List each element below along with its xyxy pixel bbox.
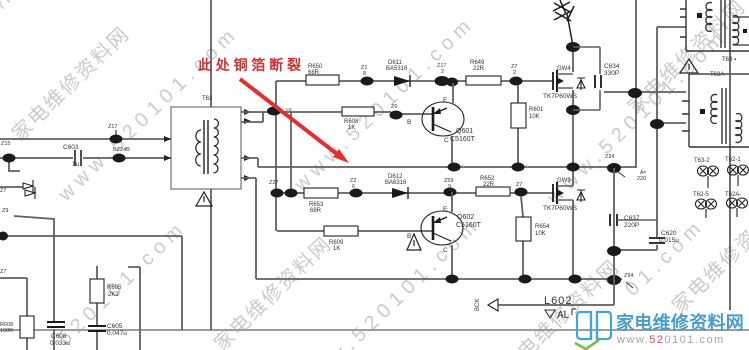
T63A polarity dot xyxy=(700,109,705,114)
resistor R608 100R xyxy=(0,316,34,338)
wire node Z9 down left column xyxy=(14,216,54,350)
svg-text:L602: L602 xyxy=(544,295,572,307)
svg-text:C: C xyxy=(444,137,449,144)
svg-text:T63: T63 xyxy=(202,96,213,102)
svg-text:2: 2 xyxy=(441,69,444,75)
MOSFET GW4 TK7P60WS xyxy=(543,66,585,100)
wire y27 to winding xyxy=(657,26,686,28)
svg-text:330P: 330P xyxy=(604,70,619,77)
svg-text:T63A: T63A xyxy=(710,72,724,78)
svg-text:AL: AL xyxy=(557,310,570,321)
node rail C: Q602 C xyxy=(446,275,459,284)
wire transformer bottom vertical xyxy=(210,189,212,330)
svg-text:C5160T: C5160T xyxy=(450,136,476,143)
wire x636 vertical xyxy=(635,0,637,168)
svg-text:0.033u: 0.033u xyxy=(50,340,70,347)
svg-text:9: 9 xyxy=(448,184,451,190)
T63 winding 1 tap line xyxy=(680,0,749,51)
connector T62A xyxy=(725,192,748,217)
wire to surge arrester Z7 xyxy=(0,186,23,188)
wire left rail 1 xyxy=(0,138,171,140)
svg-text:C603: C603 xyxy=(63,144,79,151)
T63A right coil xyxy=(736,114,742,143)
wire x614 vertical xyxy=(613,168,615,305)
node Z6 xyxy=(390,104,403,120)
node Z26 xyxy=(350,178,363,198)
svg-text:Z15: Z15 xyxy=(1,141,10,147)
T63A tap line xyxy=(682,74,749,147)
svg-text:R654: R654 xyxy=(535,224,550,230)
svg-text:T62-1: T62-1 xyxy=(725,157,741,163)
diode D611 BA5316 xyxy=(386,60,410,87)
svg-text:GW4: GW4 xyxy=(557,66,571,72)
resistor R654 10K xyxy=(516,196,550,279)
node Z2 xyxy=(510,64,523,86)
svg-text:家电维修资料网: 家电维修资料网 xyxy=(616,312,744,333)
wire rail D gate drive 2 xyxy=(277,192,553,194)
svg-text:C620: C620 xyxy=(661,230,677,237)
node rail C: GW3 source xyxy=(569,275,582,284)
T63 primary coil xyxy=(196,130,201,166)
fuse label 220 xyxy=(637,170,646,182)
T63 secondary coil xyxy=(213,119,218,173)
arrow BCK xyxy=(475,299,498,311)
node Z27 pair xyxy=(269,180,298,198)
capacitor C608 0.033u xyxy=(47,322,70,347)
svg-text:此处铜箔断裂: 此处铜箔断裂 xyxy=(198,57,305,73)
wire GW4 drain/source vertical xyxy=(572,46,574,167)
wire rail C xyxy=(256,278,622,280)
wire T63 pin y158 to rail B xyxy=(241,158,258,167)
T63 core xyxy=(204,120,208,174)
svg-text:Z17: Z17 xyxy=(108,124,117,130)
svg-text:B: B xyxy=(407,119,411,126)
svg-text:R605: R605 xyxy=(107,285,122,291)
capacitor C605 0.047u xyxy=(88,323,127,337)
wire rail B xyxy=(258,166,636,168)
svg-text:家电维修资料网: 家电维修资料网 xyxy=(0,0,26,99)
node at 573,110 xyxy=(566,105,580,115)
transistor Q601 C5160T xyxy=(407,83,476,167)
resistor R605 2K2 xyxy=(90,279,122,303)
svg-text:BCK: BCK xyxy=(475,299,481,311)
svg-text:www.520101.com: www.520101.com xyxy=(616,334,725,346)
node Z17 xyxy=(435,63,459,87)
node 635,93 xyxy=(628,88,642,98)
wire y75 xyxy=(689,73,749,75)
wire y91 to T63A xyxy=(604,91,686,93)
logo book icon xyxy=(577,312,611,339)
svg-text:220: 220 xyxy=(637,176,646,182)
svg-text:Z24: Z24 xyxy=(605,154,614,160)
wire y123 to T63A xyxy=(657,122,686,124)
node Z24 rail B end xyxy=(605,154,625,177)
resistor R652 22R xyxy=(476,176,510,196)
resistor R608 1K xyxy=(342,107,374,131)
connector T62-1 xyxy=(725,157,749,186)
transistor Q602 C5160T xyxy=(407,192,482,279)
svg-text:C605: C605 xyxy=(107,323,123,330)
svg-text:C634: C634 xyxy=(604,63,620,70)
node at 573,47 xyxy=(566,42,580,52)
transformer T63 xyxy=(164,96,251,189)
warning triangle right xyxy=(680,59,698,73)
capacitor C603 xyxy=(63,144,81,168)
T63 top core xyxy=(721,0,725,48)
node rail C: R654 bottom xyxy=(519,275,532,284)
node 614,251 xyxy=(607,246,621,256)
svg-text:22R: 22R xyxy=(473,66,485,72)
T63 winding 1 coil xyxy=(706,2,712,31)
svg-text:Z7: Z7 xyxy=(0,188,6,194)
svg-text:T62A-: T62A- xyxy=(725,192,741,198)
svg-text:1K: 1K xyxy=(333,246,340,252)
svg-text:家电维修资料网: 家电维修资料网 xyxy=(209,232,336,350)
MOSFET GW3 TK7P60WS xyxy=(543,178,585,212)
logo green swoosh xyxy=(575,340,599,349)
resistor R649 22R xyxy=(466,60,501,85)
ground triangle center xyxy=(407,234,421,250)
inductor L602 xyxy=(544,295,576,321)
svg-text:2K2: 2K2 xyxy=(108,292,119,298)
connector T63-2 xyxy=(694,158,719,188)
wire T63 pin y178 to rail C xyxy=(241,178,256,279)
svg-text:Z7: Z7 xyxy=(516,182,522,188)
svg-text:6: 6 xyxy=(352,184,355,190)
wire transformer top vertical xyxy=(210,0,212,107)
svg-text:T62-5: T62-5 xyxy=(693,192,709,198)
wire corner x140 xyxy=(128,267,140,350)
resistor R650 68R xyxy=(306,64,339,85)
T63A core xyxy=(722,88,726,144)
svg-text:100R: 100R xyxy=(0,328,13,334)
polarity dot xyxy=(697,13,702,18)
T63A coil xyxy=(711,94,717,123)
capacitor C637 220P xyxy=(610,214,657,229)
wire T63 pin y122 stub xyxy=(241,112,263,122)
node Z58 xyxy=(515,182,528,197)
surge arrester Z7 xyxy=(0,180,35,199)
wire GW3 drain/source vertical xyxy=(572,168,574,279)
svg-text:T63-2: T63-2 xyxy=(694,158,710,164)
svg-text:Q602: Q602 xyxy=(457,214,474,221)
svg-text:BA5316: BA5316 xyxy=(386,66,408,72)
resistor R609 1K xyxy=(277,226,433,252)
spark gap top xyxy=(553,0,574,46)
svg-text:68R: 68R xyxy=(310,208,322,214)
svg-text:GW3: GW3 xyxy=(557,178,571,184)
svg-text:Z94: Z94 xyxy=(624,273,633,279)
wire y305 L602 xyxy=(498,304,614,306)
node BZ24B xyxy=(113,147,131,163)
svg-text:1u: 1u xyxy=(72,161,80,168)
ground triangle under T63 xyxy=(196,192,212,206)
polarity dot right xyxy=(743,29,747,33)
svg-text:8: 8 xyxy=(363,71,366,77)
node rail B: R601 bottom xyxy=(512,163,525,172)
svg-text:c≡: c≡ xyxy=(286,107,292,113)
node 657,124 xyxy=(650,119,664,129)
wire hook under node Z15 xyxy=(9,162,20,171)
node Z18 xyxy=(361,65,374,86)
node Z94 xyxy=(624,273,633,288)
wire Z7 row to resistor R608 xyxy=(0,278,27,350)
T63 top right coil xyxy=(733,16,749,45)
svg-text:10K: 10K xyxy=(529,114,540,120)
wire vertical x291 xyxy=(290,112,292,193)
svg-text:Z7: Z7 xyxy=(0,269,6,275)
node dot left edge y236 xyxy=(0,232,8,241)
wire column R605/C605 xyxy=(96,266,98,350)
svg-text:Z27: Z27 xyxy=(269,180,278,186)
wire right border vertical xyxy=(729,0,731,310)
svg-text:22R: 22R xyxy=(483,182,495,188)
svg-text:BA6316: BA6316 xyxy=(385,180,407,186)
svg-text:Z6: Z6 xyxy=(391,104,397,110)
T63 left pin arrows xyxy=(164,136,171,161)
node Z59 xyxy=(444,178,457,197)
T63 right pin arrows xyxy=(244,109,251,181)
svg-text:1K: 1K xyxy=(348,125,355,131)
svg-text:B: B xyxy=(407,233,411,240)
svg-text:68R: 68R xyxy=(308,70,320,76)
wire left rail 2 xyxy=(0,157,171,159)
wire y250 C620 return xyxy=(614,249,657,251)
wire row2 base drive 1 xyxy=(241,112,433,114)
svg-text:0.015u: 0.015u xyxy=(659,237,679,244)
svg-text:E: E xyxy=(443,206,448,213)
red arrow xyxy=(240,79,349,163)
svg-text:C637: C637 xyxy=(624,215,640,222)
svg-text:E: E xyxy=(443,97,448,104)
wire rail A gate drive 1 xyxy=(276,80,553,82)
node Z17a xyxy=(108,124,123,144)
svg-text:220P: 220P xyxy=(624,222,639,229)
node rail B: Q601 C xyxy=(448,163,461,172)
svg-text:0.047u: 0.047u xyxy=(107,330,127,337)
node Z15 xyxy=(1,141,16,163)
svg-text:T63 ▪: T63 ▪ xyxy=(722,57,736,63)
node rail B: GW4 source xyxy=(567,163,580,172)
svg-text:BZ24B: BZ24B xyxy=(113,147,130,153)
resistor R653 68R xyxy=(304,188,338,214)
node on row2 xyxy=(267,107,281,116)
diode D612 BA6316 xyxy=(385,174,408,199)
wire x657 vertical xyxy=(656,27,658,250)
node rail C: x614 xyxy=(607,275,621,285)
svg-text:www.520101.com: www.520101.com xyxy=(53,22,243,207)
svg-text:2: 2 xyxy=(513,70,516,76)
svg-text:Z9: Z9 xyxy=(2,208,8,214)
svg-text:10K: 10K xyxy=(535,231,546,237)
wire vertical x276 xyxy=(275,81,277,231)
capacitor C634 330P xyxy=(573,47,620,110)
svg-text:Q601: Q601 xyxy=(456,128,473,135)
wire y236 with corner down xyxy=(2,236,182,330)
svg-text:R601: R601 xyxy=(529,107,544,113)
svg-text:C: C xyxy=(443,247,448,254)
svg-text:C608: C608 xyxy=(51,333,67,340)
resistor R601 10K xyxy=(511,85,544,167)
border frame line xyxy=(0,329,749,331)
svg-text:C5160T: C5160T xyxy=(456,222,482,229)
capacitor C620 0.015u xyxy=(649,230,679,244)
connector T62-5 xyxy=(693,192,717,218)
